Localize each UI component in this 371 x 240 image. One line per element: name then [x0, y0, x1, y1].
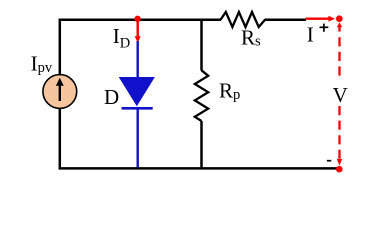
wire: top horizontal (left of Rs) [59, 19, 221, 22]
wire: Rp branch top [200, 19, 203, 71]
plus sign [320, 24, 329, 32]
wire: left vertical bottom segment [59, 108, 62, 169]
node: red junction dot at diode branch top [134, 16, 140, 22]
current source arrow [56, 78, 64, 101]
voltage arrow V bottom (red dashed, arrowhead down) [337, 106, 342, 166]
current source Ipv circle [43, 75, 77, 109]
resistor Rp zigzag [195, 70, 208, 121]
node: red dot output + terminal [336, 15, 343, 22]
wire: bottom horizontal [59, 167, 338, 170]
svg-text:V: V [333, 83, 348, 107]
voltage arrow V top (red dashed, arrowhead up) [337, 22, 342, 76]
minus sign [327, 160, 331, 162]
diode D triangle [119, 77, 155, 106]
wire: diode cathode to bottom (blue) [136, 108, 138, 167]
current arrow I (red, output) [306, 16, 335, 22]
current arrow ID (red) [135, 20, 141, 43]
svg-text:Rs: Rs [241, 26, 261, 50]
resistor Rs zigzag [221, 12, 266, 27]
diode cathode bar [122, 107, 153, 110]
svg-text:Rp: Rp [219, 79, 240, 103]
wire: Rp branch bottom [200, 121, 203, 169]
svg-text:Ipv: Ipv [31, 51, 53, 76]
wire: top horizontal (Rs to red segment) [265, 19, 307, 22]
svg-text:ID: ID [113, 24, 130, 51]
wire: diode anode (blue) [136, 41, 138, 78]
node: red dot output - terminal [336, 166, 343, 173]
svg-text:I: I [307, 23, 314, 47]
wire: left vertical top segment [59, 19, 62, 76]
svg-text:D: D [104, 85, 119, 109]
